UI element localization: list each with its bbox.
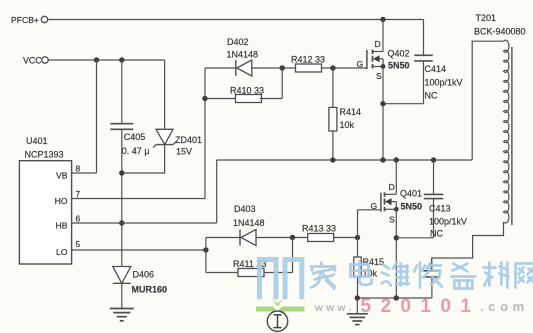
svg-text:G: G	[371, 201, 378, 211]
wire D406 to ground	[121, 283, 123, 308]
resistor R414	[332, 68, 334, 107]
wire Q402 source	[382, 67, 384, 161]
svg-text:NCP1393: NCP1393	[25, 150, 64, 160]
wire ground bus	[357, 297, 432, 299]
watermark char 6	[483, 263, 508, 288]
svg-text:Q402: Q402	[388, 49, 410, 59]
wire Q401 source	[395, 209, 397, 298]
wire HB pin 6	[72, 222, 217, 224]
resistor R415	[357, 238, 359, 258]
wire D403 run	[206, 237, 358, 239]
svg-text:NC: NC	[425, 91, 438, 101]
wire HO gate run	[205, 67, 367, 69]
svg-text:1N4148: 1N4148	[227, 50, 259, 60]
svg-text:NC: NC	[430, 229, 443, 239]
node R414 bottom	[330, 157, 335, 162]
terminal PFCB+	[41, 16, 47, 22]
transistor Q402	[366, 50, 368, 69]
svg-text:HO: HO	[55, 196, 68, 206]
svg-text:D: D	[389, 182, 395, 192]
node VCC-VB junction	[94, 57, 99, 62]
svg-text:7: 7	[76, 189, 81, 199]
node C405/ZD401 junction	[119, 170, 124, 175]
svg-text:100p/1kV: 100p/1kV	[425, 78, 463, 88]
ground main	[356, 298, 358, 313]
ground D406	[110, 308, 134, 310]
svg-text:Q401: Q401	[400, 189, 422, 199]
transformer core	[511, 47, 513, 225]
svg-text:U401: U401	[26, 136, 48, 146]
svg-text:D402: D402	[227, 37, 249, 47]
svg-text:6: 6	[76, 214, 81, 224]
resistor R411	[206, 272, 238, 274]
svg-text:520101: 520101	[361, 296, 481, 317]
watermark char 2	[351, 262, 372, 285]
wire HO pin 7	[72, 198, 205, 200]
svg-text:. c o m: . c o m	[480, 299, 525, 314]
svg-text:LO: LO	[56, 247, 68, 257]
wire HB riser	[216, 160, 218, 223]
transistor Q401	[380, 193, 382, 212]
svg-text:MUR160: MUR160	[132, 285, 168, 295]
watermark char 3	[382, 263, 409, 286]
node VCC-C405 junction	[119, 57, 124, 62]
node R415 bottom / ground	[355, 295, 360, 300]
wire C405 branch upper	[121, 60, 123, 124]
svg-text:T201: T201	[476, 13, 497, 23]
node D402-R410 junction	[280, 65, 285, 70]
svg-text:10k: 10k	[340, 120, 355, 130]
svg-text:C414: C414	[425, 64, 447, 74]
node Q401 source to ground bus	[394, 295, 399, 300]
svg-text:D403: D403	[234, 204, 256, 214]
watermark char 1	[311, 263, 335, 289]
svg-text:VCC: VCC	[23, 56, 42, 66]
svg-text:R414: R414	[340, 107, 362, 117]
diode D402	[235, 60, 237, 76]
node PFCB+/drain junction	[380, 17, 385, 22]
diode D403	[239, 230, 241, 246]
watermark char 5	[451, 264, 475, 289]
svg-text:G: G	[357, 59, 364, 69]
resistor R413	[308, 234, 334, 242]
svg-text:8: 8	[76, 164, 81, 174]
svg-text:VB: VB	[56, 171, 68, 181]
node marker circled 1	[267, 311, 287, 331]
wire half-bridge node	[217, 159, 473, 161]
svg-text:5: 5	[76, 239, 81, 249]
svg-text:15V: 15V	[176, 147, 192, 157]
node R410 tap	[202, 96, 207, 101]
node gate/R414 junction	[330, 65, 335, 70]
wire VCC rail	[48, 59, 164, 61]
IC U401 NCP1393	[19, 161, 71, 264]
node Q402 source to HB	[380, 157, 385, 162]
wire primary top	[472, 41, 503, 160]
svg-text:ZD401: ZD401	[175, 135, 202, 145]
wire VB to VCC	[96, 60, 98, 173]
svg-text:S: S	[389, 215, 395, 225]
wire C405 branch lower	[121, 129, 123, 266]
svg-text:R412 33: R412 33	[291, 55, 325, 65]
terminal VCC	[42, 57, 48, 63]
node gate/R415 junction Q401	[355, 235, 360, 240]
svg-text:100p/1kV: 100p/1kV	[429, 217, 467, 227]
wire Q402 drain	[382, 20, 384, 52]
watermark char 4	[414, 263, 442, 288]
svg-text:R413 33: R413 33	[302, 224, 336, 234]
node Q401 drain to HB	[394, 157, 399, 162]
wire ZD401 branch	[164, 60, 166, 129]
svg-text:0. 47 μ: 0. 47 μ	[122, 146, 150, 156]
wire LO riser	[205, 238, 207, 273]
wire primary return	[432, 222, 504, 271]
svg-text:D406: D406	[133, 270, 155, 280]
svg-text:R410 33: R410 33	[230, 86, 264, 96]
node D403-R411 junction	[290, 235, 295, 240]
wire ZD401 to C405 node	[122, 145, 165, 173]
capacitor C412 blocking	[431, 277, 433, 298]
wire HO riser	[204, 68, 206, 199]
svg-text:C413: C413	[429, 204, 451, 214]
capacitor C405	[110, 123, 133, 125]
wire Q401 gate riser	[357, 210, 359, 238]
svg-text:C405: C405	[124, 132, 146, 142]
capacitor C414	[423, 20, 425, 56]
svg-text:w w w .: w w w .	[314, 303, 352, 314]
resistor R410	[205, 98, 237, 100]
node C413 top	[431, 157, 436, 162]
svg-text:5N50: 5N50	[388, 61, 410, 71]
svg-text:D: D	[375, 39, 381, 49]
diode D406	[113, 267, 131, 284]
capacitor C413	[433, 160, 435, 194]
watermark	[256, 260, 305, 312]
svg-text:BCK-940080: BCK-940080	[474, 27, 526, 37]
svg-text:PFCB+: PFCB+	[11, 15, 39, 25]
svg-text:S: S	[376, 71, 382, 81]
zener diode ZD401	[156, 129, 173, 144]
svg-text:5N50: 5N50	[401, 202, 423, 212]
resistor R412	[296, 64, 322, 72]
wire LO pin 5	[72, 249, 206, 251]
node HB junction on C405 branch	[119, 220, 124, 225]
wire PFCB+ rail	[48, 19, 424, 21]
node LO junction	[203, 247, 208, 252]
wire Q401 drain	[395, 160, 397, 194]
svg-text:HB: HB	[56, 221, 68, 231]
node Q401 source junction	[394, 235, 399, 240]
watermark char 7	[516, 264, 533, 288]
node C414 bottom junction	[380, 101, 385, 106]
svg-text:1N4148: 1N4148	[233, 218, 265, 228]
wire source to C413 bottom	[396, 237, 433, 239]
